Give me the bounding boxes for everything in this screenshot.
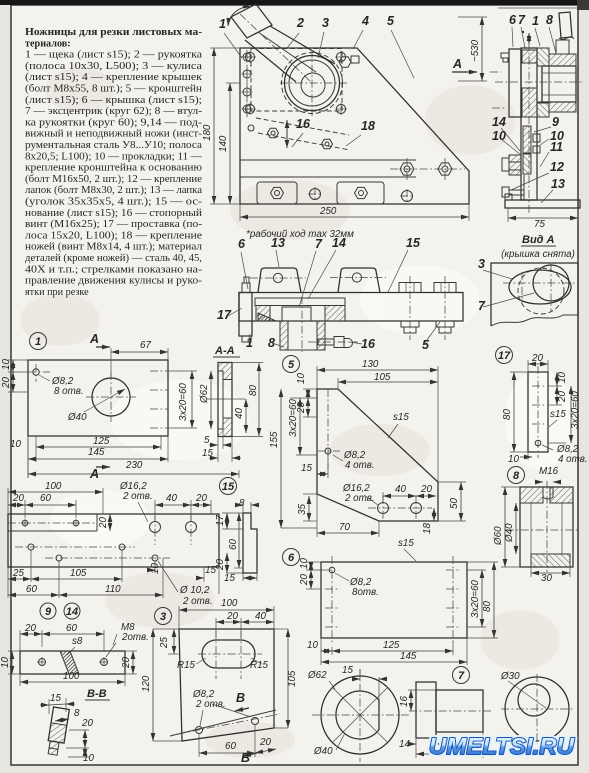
svg-text:В-В: В-В xyxy=(87,688,107,700)
svg-text:8х20,5; L100); 10 — прокладки;: 8х20,5; L100); 10 — прокладки; 11 — xyxy=(25,151,203,162)
svg-text:105: 105 xyxy=(374,372,391,383)
svg-text:4 отв.: 4 отв. xyxy=(558,454,588,465)
svg-text:40Х и т.п.; стрелками показано: 40Х и т.п.; стрелками показано на- xyxy=(25,264,203,275)
svg-text:R15: R15 xyxy=(177,660,196,671)
svg-text:12: 12 xyxy=(550,160,564,174)
svg-text:8отв.: 8отв. xyxy=(352,587,379,598)
svg-text:2 отв.: 2 отв. xyxy=(182,596,213,607)
svg-text:18: 18 xyxy=(422,523,433,534)
svg-text:15: 15 xyxy=(342,665,353,676)
svg-text:(крышка снята): (крышка снята) xyxy=(501,249,575,260)
svg-text:3х20=60: 3х20=60 xyxy=(470,580,481,618)
svg-text:20: 20 xyxy=(81,718,93,729)
svg-text:18: 18 xyxy=(361,119,375,133)
svg-text:25: 25 xyxy=(159,637,170,649)
svg-text:2отв.: 2отв. xyxy=(121,632,149,643)
svg-text:60: 60 xyxy=(26,584,37,595)
svg-text:(лист s15); 6 — крышка (лист s: (лист s15); 6 — крышка (лист s15); xyxy=(25,95,202,106)
svg-text:лоса 15х20, L100); 18 — крепле: лоса 15х20, L100); 18 — крепление xyxy=(25,230,203,241)
svg-text:145: 145 xyxy=(400,651,417,662)
svg-text:3: 3 xyxy=(322,16,329,30)
svg-text:15: 15 xyxy=(301,463,312,474)
svg-text:7: 7 xyxy=(315,237,323,251)
svg-text:ножей (винт М8х14, 4 шт.); мат: ножей (винт М8х14, 4 шт.); материал xyxy=(25,242,202,253)
svg-text:8: 8 xyxy=(513,470,520,482)
svg-text:А: А xyxy=(89,332,99,346)
svg-text:20: 20 xyxy=(195,493,207,504)
svg-text:1: 1 xyxy=(532,14,539,28)
svg-text:Ø40: Ø40 xyxy=(504,523,515,543)
svg-text:130: 130 xyxy=(362,359,379,370)
svg-text:(болт М16х50, 2 шт.); 12 — кре: (болт М16х50, 2 шт.); 12 — крепление xyxy=(25,174,203,185)
svg-text:8 отв.: 8 отв. xyxy=(54,386,84,397)
svg-text:20: 20 xyxy=(420,484,432,495)
svg-text:10: 10 xyxy=(10,439,21,450)
svg-text:8: 8 xyxy=(546,13,553,27)
svg-text:9: 9 xyxy=(552,115,559,129)
svg-text:Ø62: Ø62 xyxy=(199,384,210,404)
svg-text:s15: s15 xyxy=(398,538,414,549)
svg-text:8: 8 xyxy=(268,336,275,350)
svg-text:лапок (болт М8х30, 2 шт.); 13: лапок (болт М8х30, 2 шт.); 13 — лапка xyxy=(25,185,202,196)
svg-text:40: 40 xyxy=(234,408,245,419)
svg-text:20: 20 xyxy=(24,623,36,634)
svg-text:16: 16 xyxy=(296,117,311,131)
svg-text:30: 30 xyxy=(541,573,552,584)
svg-text:20: 20 xyxy=(121,657,132,669)
svg-text:75: 75 xyxy=(534,219,545,230)
svg-text:80: 80 xyxy=(482,601,493,612)
svg-text:13: 13 xyxy=(271,236,285,250)
svg-text:М16: М16 xyxy=(539,466,559,477)
svg-text:20: 20 xyxy=(98,517,109,529)
svg-text:9: 9 xyxy=(45,606,52,618)
svg-text:8: 8 xyxy=(74,708,80,719)
svg-text:Вид А: Вид А xyxy=(522,234,555,246)
svg-text:2: 2 xyxy=(296,16,304,30)
svg-text:140: 140 xyxy=(218,135,229,152)
svg-text:40: 40 xyxy=(255,611,266,622)
svg-text:20: 20 xyxy=(557,391,568,403)
svg-text:155: 155 xyxy=(269,431,280,448)
svg-text:ятки при резке: ятки при резке xyxy=(25,287,89,298)
svg-text:70: 70 xyxy=(339,522,350,533)
svg-text:11: 11 xyxy=(550,140,563,154)
svg-text:3х20=60: 3х20=60 xyxy=(178,383,189,421)
svg-text:6: 6 xyxy=(288,552,295,564)
svg-text:60: 60 xyxy=(228,539,239,550)
svg-text:16: 16 xyxy=(399,696,410,707)
svg-text:100: 100 xyxy=(63,671,80,682)
svg-text:3х20=60: 3х20=60 xyxy=(288,399,299,437)
svg-text:7 — эксцентрик (круг 62); 8 —: 7 — эксцентрик (круг 62); 8 — втул- xyxy=(25,106,203,117)
svg-text:(полоса 10х30, L500); 3 — кули: (полоса 10х30, L500); 3 — кулиса xyxy=(25,61,203,72)
svg-text:нование (лист s15); 16 — стопо: нование (лист s15); 16 — стопорный xyxy=(25,208,203,219)
svg-text:s8: s8 xyxy=(72,636,83,647)
svg-text:(болт М8х55, 8 шт.); 5 — кронш: (болт М8х55, 8 шт.); 5 — кронштейн xyxy=(25,84,203,95)
svg-text:105: 105 xyxy=(287,670,298,687)
svg-text:2 отв.: 2 отв. xyxy=(195,699,226,710)
svg-text:15: 15 xyxy=(222,481,235,493)
svg-text:14: 14 xyxy=(399,739,410,750)
svg-text:4 отв.: 4 отв. xyxy=(345,460,375,471)
svg-text:А: А xyxy=(452,57,462,71)
svg-text:20: 20 xyxy=(226,611,238,622)
svg-text:20: 20 xyxy=(12,493,24,504)
svg-text:40: 40 xyxy=(395,484,406,495)
svg-text:80: 80 xyxy=(502,409,513,420)
svg-text:2 отв.: 2 отв. xyxy=(122,491,153,502)
svg-text:60: 60 xyxy=(66,623,77,634)
svg-text:15: 15 xyxy=(224,573,235,584)
svg-text:105: 105 xyxy=(70,568,87,579)
svg-text:Ø40: Ø40 xyxy=(313,746,333,757)
svg-text:4: 4 xyxy=(361,14,369,28)
svg-text:40: 40 xyxy=(166,493,177,504)
svg-text:10: 10 xyxy=(1,359,12,370)
svg-text:60: 60 xyxy=(40,493,51,504)
svg-text:14: 14 xyxy=(492,115,506,129)
svg-text:7: 7 xyxy=(518,13,526,27)
svg-text:67: 67 xyxy=(140,340,151,351)
svg-text:14: 14 xyxy=(66,606,78,618)
svg-text:10: 10 xyxy=(557,372,568,383)
svg-text:Ø60: Ø60 xyxy=(493,526,504,546)
svg-text:териалов:: териалов: xyxy=(25,38,71,49)
svg-text:Ножницы для резки листовых ма-: Ножницы для резки листовых ма- xyxy=(25,27,203,38)
svg-text:2 отв.: 2 отв. xyxy=(344,493,375,504)
svg-text:ка рукоятки (круг 60); 9,14 —: ка рукоятки (круг 60); 9,14 — под- xyxy=(25,117,203,128)
svg-text:14: 14 xyxy=(332,236,346,250)
svg-text:5: 5 xyxy=(288,359,295,371)
svg-text:80: 80 xyxy=(248,385,259,396)
svg-text:вижный и неподвижный ножи (инс: вижный и неподвижный ножи (инст- xyxy=(25,129,203,140)
svg-text:17: 17 xyxy=(498,350,511,362)
svg-text:15: 15 xyxy=(202,448,213,459)
svg-text:145: 145 xyxy=(88,447,105,458)
svg-text:1 — щека (лист s15); 2 — рукоя: 1 — щека (лист s15); 2 — рукоятка xyxy=(25,50,203,61)
svg-text:125: 125 xyxy=(93,436,110,447)
svg-text:16: 16 xyxy=(361,337,376,351)
svg-text:1: 1 xyxy=(246,336,253,350)
svg-text:17: 17 xyxy=(215,515,226,526)
svg-text:125: 125 xyxy=(383,640,400,651)
svg-text:10: 10 xyxy=(0,657,11,668)
svg-text:10: 10 xyxy=(508,454,519,465)
svg-text:20: 20 xyxy=(215,559,226,571)
svg-text:3: 3 xyxy=(160,611,166,623)
svg-text:10: 10 xyxy=(307,640,318,651)
svg-text:В: В xyxy=(236,691,245,705)
svg-text:1: 1 xyxy=(219,17,226,31)
svg-text:7: 7 xyxy=(478,299,486,313)
svg-text:20: 20 xyxy=(531,353,543,364)
svg-text:6: 6 xyxy=(238,237,246,251)
svg-text:~530: ~530 xyxy=(470,39,481,62)
svg-text:100: 100 xyxy=(221,598,238,609)
svg-text:100: 100 xyxy=(45,481,62,492)
svg-text:8: 8 xyxy=(239,498,245,509)
svg-text:Ø62: Ø62 xyxy=(307,670,327,681)
svg-text:5: 5 xyxy=(422,338,430,352)
svg-text:10: 10 xyxy=(150,563,161,574)
svg-text:UMELTSI.RU: UMELTSI.RU xyxy=(429,733,575,759)
svg-text:крепление кронштейна к основан: крепление кронштейна к основанию xyxy=(25,163,202,174)
svg-text:правление движения кулисы и ру: правление движения кулисы и руко- xyxy=(25,276,203,287)
svg-text:230: 230 xyxy=(125,460,143,471)
svg-text:10: 10 xyxy=(296,373,307,384)
svg-text:250: 250 xyxy=(319,206,337,217)
svg-text:s15: s15 xyxy=(550,409,566,420)
svg-text:Ø30: Ø30 xyxy=(500,671,520,682)
svg-text:50: 50 xyxy=(449,498,460,509)
svg-text:1: 1 xyxy=(35,336,41,348)
svg-text:20: 20 xyxy=(259,737,271,748)
svg-text:s15: s15 xyxy=(393,412,409,423)
svg-text:Ø 10,2: Ø 10,2 xyxy=(179,585,210,596)
svg-text:А-А: А-А xyxy=(214,345,235,357)
svg-text:(лист s15); 4 — крепление крыш: (лист s15); 4 — крепление крышек xyxy=(25,72,202,83)
svg-text:180: 180 xyxy=(202,124,213,141)
svg-text:10: 10 xyxy=(299,558,310,569)
svg-text:60: 60 xyxy=(225,741,236,752)
svg-text:(уголок 35х35х5, 4 шт.); 15 —: (уголок 35х35х5, 4 шт.); 15 — ос- xyxy=(25,197,203,208)
svg-text:25: 25 xyxy=(12,568,24,579)
svg-text:120: 120 xyxy=(141,675,152,692)
svg-text:Ø40: Ø40 xyxy=(67,412,87,423)
svg-text:13: 13 xyxy=(551,177,565,191)
svg-text:20: 20 xyxy=(1,377,12,389)
svg-text:R15: R15 xyxy=(250,660,269,671)
svg-text:5: 5 xyxy=(387,14,395,28)
svg-text:15: 15 xyxy=(406,236,421,250)
svg-text:3: 3 xyxy=(478,257,485,271)
svg-text:рументальная сталь У8...У10; п: рументальная сталь У8...У10; полоса xyxy=(25,140,203,151)
svg-text:20: 20 xyxy=(299,574,310,586)
svg-text:3х20=60: 3х20=60 xyxy=(570,391,581,429)
svg-text:7: 7 xyxy=(458,670,465,682)
svg-text:деталей (кроме ножей) — сталь: деталей (кроме ножей) — сталь 40, 45, xyxy=(25,253,202,264)
svg-text:15: 15 xyxy=(50,693,61,704)
svg-text:винт (М16х25); 17 — проставка: винт (М16х25); 17 — проставка (по- xyxy=(25,219,203,230)
svg-text:5: 5 xyxy=(204,435,210,446)
svg-text:35: 35 xyxy=(297,504,308,515)
svg-text:110: 110 xyxy=(105,584,121,595)
svg-text:6: 6 xyxy=(509,13,517,27)
